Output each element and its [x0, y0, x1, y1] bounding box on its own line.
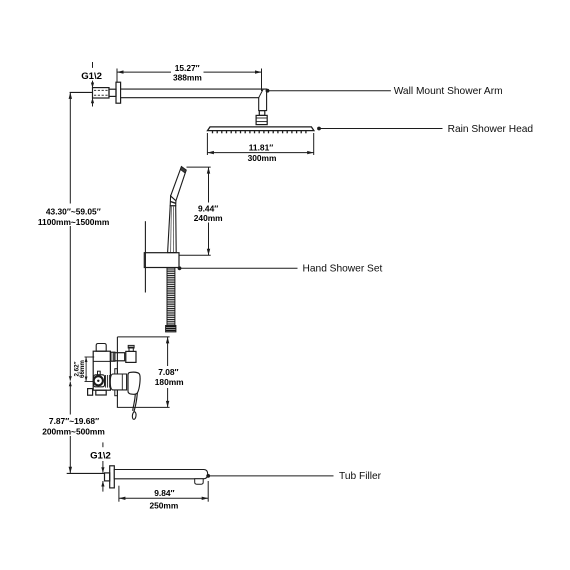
rain shower head plate: [208, 127, 314, 131]
valve handle screw stem: [98, 371, 101, 375]
valve handle tail: [134, 393, 138, 412]
tub wall line: [67, 472, 105, 474]
valve bottom port: [96, 390, 106, 395]
dimension 9.44in / 240mm (hand shower height): [179, 167, 223, 255]
hand shower wand head: [171, 167, 187, 201]
svg-text:180mm: 180mm: [155, 377, 184, 387]
valve top nipple: [96, 344, 106, 352]
dimension 7.87~19.68in / 200mm~500mm (valve to tub spout): [42, 382, 105, 474]
svg-text:11.81″: 11.81″: [249, 142, 274, 152]
wall surface line at shower arm: [70, 91, 93, 93]
svg-text:Wall Mount Shower Arm: Wall Mount Shower Arm: [394, 86, 503, 97]
svg-text:Tub Filler: Tub Filler: [339, 471, 382, 482]
valve handle screw circle: [94, 376, 103, 385]
wall mount shower arm pipe with bend: [121, 89, 267, 111]
valve handle hub pad: [94, 375, 105, 387]
svg-text:300mm: 300mm: [248, 153, 277, 163]
valve right port nut: [110, 352, 115, 361]
dimension 43.30~59.05in / 1100mm~1500mm (arm height range): [38, 92, 109, 380]
hand shower bracket shelf: [144, 253, 179, 268]
svg-text:Rain Shower Head: Rain Shower Head: [448, 124, 534, 135]
diverter stem: [129, 347, 133, 351]
hand shower handle: [168, 206, 177, 253]
dimension 15.27in / 388mm (shower arm length): [117, 63, 262, 91]
valve lever handle: [128, 372, 140, 394]
tub filler spout: [114, 470, 207, 479]
svg-text:250mm: 250mm: [149, 500, 178, 510]
leader: rain shower head: [317, 127, 321, 131]
leader: tub filler: [206, 474, 210, 478]
svg-text:66mm: 66mm: [79, 360, 86, 378]
hand shower hose (ribbed): [167, 268, 175, 326]
valve right port pipe: [115, 353, 125, 361]
hand shower wand joint: [170, 196, 176, 206]
dimension 9.84in / 250mm (spout length): [119, 481, 208, 510]
tub spout wall stub: [105, 473, 110, 481]
dimension 2.62in / 66mm (valve port spacing): [74, 357, 95, 382]
svg-text:G1\2: G1\2: [90, 450, 111, 461]
tub spout nozzle: [195, 479, 204, 484]
valve escutcheon edge: [115, 369, 118, 396]
svg-text:7.08″: 7.08″: [158, 367, 178, 377]
rain shower head nozzles: [213, 131, 306, 134]
leader: hand shower set: [178, 266, 182, 270]
svg-text:240mm: 240mm: [194, 213, 223, 223]
svg-text:Hand Shower Set: Hand Shower Set: [303, 264, 383, 275]
svg-text:43.30″~59.05″: 43.30″~59.05″: [46, 207, 101, 217]
G1/2 thread label (tub spout): [90, 442, 111, 491]
svg-text:1100mm~1500mm: 1100mm~1500mm: [38, 217, 109, 227]
dimension 11.81in / 300mm (head width): [207, 133, 313, 163]
shower arm wall nipple (threaded): [93, 88, 110, 98]
arm bend chamfer: [259, 89, 264, 98]
shower arm lower collar: [259, 111, 265, 116]
shower arm connector nut: [256, 115, 267, 124]
shower arm connector sleeve: [109, 89, 116, 96]
valve wall line: [116, 337, 118, 408]
svg-text:9.84″: 9.84″: [154, 488, 174, 498]
svg-text:200mm~500mm: 200mm~500mm: [42, 427, 105, 437]
shower arm wall flange: [116, 82, 121, 103]
hand shower wall line: [144, 221, 146, 292]
cartridge ribs: [105, 375, 107, 388]
svg-text:388mm: 388mm: [173, 73, 202, 83]
tub spout flange: [110, 466, 115, 488]
svg-text:G1\2: G1\2: [81, 71, 102, 82]
leader: wall mount shower arm: [266, 89, 270, 93]
diverter body: [126, 351, 136, 362]
hose end fitting: [166, 326, 176, 332]
valve left outlet: [88, 389, 93, 396]
dimension 7.08in / 180mm (valve trim height): [117, 337, 184, 408]
valve body: [93, 351, 110, 390]
svg-text:7.87″~19.68″: 7.87″~19.68″: [49, 416, 99, 426]
G1/2 thread label (shower arm): [81, 62, 102, 107]
cartridge cylinder: [110, 374, 126, 390]
